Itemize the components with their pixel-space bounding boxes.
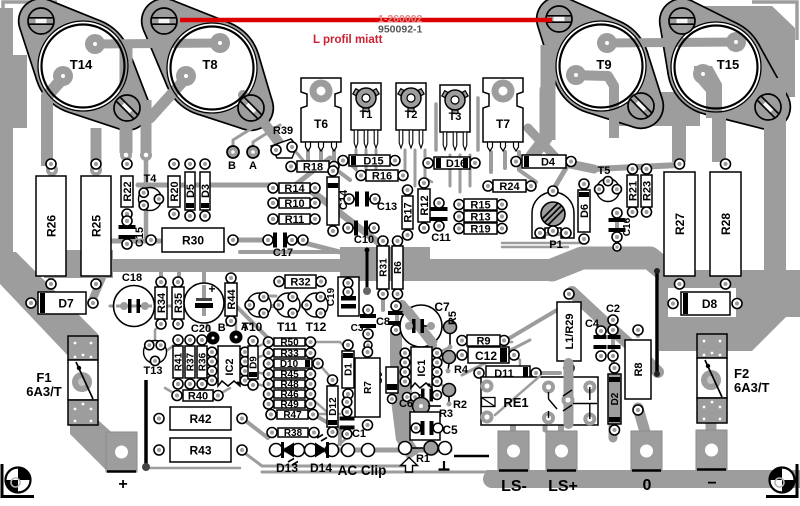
copper band bottom left round — [492, 470, 790, 488]
resistor R5 — [444, 311, 460, 350]
trace R9 to L1 — [505, 341, 512, 344]
svg-text:LS+: LS+ — [548, 478, 578, 495]
resistor R22 — [121, 159, 134, 219]
svg-text:C1: C1 — [352, 428, 366, 440]
capacitor C10 — [343, 221, 379, 247]
node R3 — [413, 398, 454, 421]
trace C2 col — [611, 330, 615, 364]
svg-text:F2: F2 — [734, 366, 749, 381]
trace C7 to R5 — [432, 326, 443, 327]
trace R8 to 0 terminal — [638, 408, 645, 432]
svg-text:IC1: IC1 — [416, 359, 428, 376]
led D14 — [305, 435, 339, 476]
transistor T9 outline — [546, 6, 659, 124]
svg-text:6A3/T: 6A3/T — [734, 380, 769, 395]
trace R47 to C1 — [313, 413, 340, 416]
diode D7 — [26, 292, 98, 314]
gray pads TO3 pins — [53, 32, 746, 86]
resistor R38 — [267, 428, 319, 440]
trace L1 diag low — [462, 340, 530, 375]
trace F1 to plus — [70, 420, 128, 470]
resistor R9 — [457, 335, 509, 347]
resistor R13 — [454, 211, 507, 223]
resistor R1 — [399, 441, 452, 465]
svg-text:R6: R6 — [393, 261, 404, 274]
svg-text:D8: D8 — [702, 297, 718, 311]
pads bottom row — [342, 444, 375, 457]
trace R43 out — [242, 451, 410, 466]
diode D11 — [474, 366, 541, 380]
svg-text:L1/R29: L1/R29 — [564, 313, 576, 349]
text AC Clip — [338, 463, 387, 478]
trace D4-P1 — [553, 163, 569, 190]
svg-text:R12: R12 — [419, 195, 431, 215]
capacitor C3 — [351, 305, 376, 349]
frame corner top-left — [3, 2, 57, 45]
trace F2 to minus — [706, 420, 717, 434]
resistor R43 — [154, 438, 247, 462]
copper band bottom — [486, 470, 800, 488]
svg-text:R14: R14 — [284, 183, 305, 195]
red wire line — [180, 18, 552, 23]
svg-text:LS-: LS- — [501, 478, 527, 495]
svg-text:R3: R3 — [439, 408, 453, 420]
capacitor C15 — [119, 216, 147, 249]
trace T4 row — [107, 160, 160, 241]
trace R47 out diag — [313, 414, 340, 444]
svg-text:D15: D15 — [363, 155, 383, 167]
red ghost board number — [378, 13, 423, 25]
trace T1 legs — [356, 150, 376, 178]
svg-text:C19: C19 — [326, 287, 337, 306]
resistor R14 — [268, 183, 320, 195]
svg-text:C2: C2 — [606, 303, 620, 315]
svg-text:B': B' — [218, 322, 229, 334]
transistor T5 — [595, 165, 622, 202]
trace mid T2/T3 — [436, 98, 478, 150]
frame corner top-right — [752, 2, 797, 40]
copper diag left-F1 — [0, 252, 98, 360]
svg-text:T2: T2 — [405, 109, 418, 121]
trace R40 links — [165, 388, 230, 395]
transistor T11 — [274, 292, 300, 334]
svg-text:T15: T15 — [717, 57, 739, 72]
svg-text:R24: R24 — [499, 181, 520, 193]
copper bar mid T14/T8 — [120, 45, 133, 153]
trace diag T8 to R39 — [243, 95, 286, 152]
svg-text:R47: R47 — [283, 410, 302, 421]
trace T2 legs — [405, 150, 425, 186]
svg-text:R5: R5 — [447, 311, 459, 325]
copper bar right edge — [764, 78, 786, 303]
diode D10 — [264, 359, 324, 371]
svg-text:C13: C13 — [377, 201, 397, 213]
resistor R6 — [392, 236, 404, 299]
gray pads misc — [46, 149, 152, 176]
trace T8 base down — [126, 78, 186, 118]
svg-text:R13: R13 — [470, 211, 490, 223]
svg-text:950092-1: 950092-1 — [378, 24, 423, 36]
svg-text:L profil miatt: L profil miatt — [313, 34, 383, 46]
trace band tail C17 — [240, 250, 345, 254]
copper pour between T9/T15 bottom — [612, 92, 700, 126]
svg-text:R49: R49 — [280, 400, 299, 411]
svg-text:R10: R10 — [284, 198, 304, 210]
transistor T6 — [301, 78, 341, 151]
symbol ground — [439, 461, 450, 470]
copper bar T9 left down — [541, 45, 556, 140]
trace wire end right — [150, 467, 240, 470]
svg-text:T7: T7 — [496, 117, 510, 131]
trace R25 stub — [93, 265, 99, 283]
diode D4 — [511, 155, 576, 168]
svg-text:D4: D4 — [541, 156, 556, 168]
svg-text:R28: R28 — [719, 213, 733, 235]
svg-text:D3: D3 — [200, 184, 212, 198]
diode D2 — [608, 363, 621, 435]
trace row y184 — [138, 158, 330, 185]
svg-text:D2: D2 — [610, 392, 621, 405]
trimmer P1 — [532, 186, 574, 251]
svg-text:+: + — [208, 282, 215, 296]
svg-text:C18: C18 — [122, 272, 142, 284]
svg-text:−: − — [707, 475, 716, 492]
resistor R26 — [36, 159, 66, 289]
trace diag T7 right — [528, 128, 594, 169]
copper band D7 top — [44, 250, 113, 278]
svg-text:T11: T11 — [277, 320, 297, 334]
svg-text:R50: R50 — [280, 338, 299, 349]
trace IC2 diag — [230, 300, 268, 338]
svg-text:R43: R43 — [189, 443, 211, 457]
trace IC2 to ladder — [245, 342, 268, 387]
copper flange T14 — [18, 0, 150, 131]
copper flange T9 — [536, 0, 664, 129]
svg-text:R37: R37 — [186, 352, 197, 371]
svg-text:R11: R11 — [285, 214, 305, 226]
resistor R48 — [264, 379, 316, 391]
svg-text:C20: C20 — [191, 323, 211, 335]
resistor R32 — [274, 275, 326, 288]
svg-text:C16: C16 — [622, 217, 633, 236]
trace D14 to C1 diag — [332, 438, 347, 450]
copper flange T15 — [659, 0, 791, 130]
svg-text:D9: D9 — [249, 356, 260, 369]
svg-text:R18: R18 — [303, 161, 323, 173]
svg-text:R30: R30 — [182, 233, 204, 247]
svg-text:C8: C8 — [376, 316, 390, 328]
svg-text:R15: R15 — [470, 199, 490, 211]
copper bar left inner — [13, 55, 27, 128]
resistor R34 — [155, 277, 168, 329]
svg-text:P1: P1 — [549, 239, 562, 251]
trace T7 legs — [491, 152, 536, 182]
svg-text:R31: R31 — [379, 258, 390, 277]
svg-text:C3: C3 — [351, 323, 364, 334]
text board number — [378, 24, 423, 36]
svg-text:D12: D12 — [328, 397, 339, 416]
capacitor C16 — [609, 208, 634, 251]
trace T6 to R39 — [296, 152, 308, 166]
trace C17 out — [293, 240, 340, 252]
diode D1 — [342, 340, 355, 399]
svg-text:C17: C17 — [273, 247, 293, 259]
trace bundle T9 down — [532, 90, 546, 156]
svg-text:B: B — [228, 160, 236, 172]
resistor R46 — [264, 389, 316, 401]
node B — [227, 146, 239, 172]
svg-text:R22: R22 — [122, 181, 134, 201]
svg-text:R35: R35 — [173, 293, 185, 313]
capacitor C7 — [400, 300, 450, 347]
trace T13 up — [155, 324, 178, 352]
svg-text:R20: R20 — [169, 181, 181, 201]
trace T15 base down — [694, 66, 722, 118]
svg-text:T6: T6 — [314, 117, 328, 131]
svg-text:R8: R8 — [633, 362, 645, 376]
svg-text:C12: C12 — [475, 349, 497, 363]
trace leg rows — [345, 160, 432, 182]
resistor R35 — [172, 277, 185, 329]
resistor R20 — [168, 159, 181, 219]
svg-text:R21: R21 — [627, 181, 639, 201]
transistor T4 — [139, 173, 164, 211]
resistor R28 — [710, 159, 741, 289]
svg-text:IC2: IC2 — [224, 358, 236, 375]
trace T10 row — [247, 304, 326, 308]
svg-text:R36: R36 — [198, 352, 209, 371]
resistor R37 — [185, 335, 197, 389]
capacitor C18 — [114, 272, 155, 327]
svg-text:T3: T3 — [449, 111, 462, 123]
trace C20 up — [202, 272, 206, 291]
trace R8 top — [636, 330, 640, 336]
trace T9-T15 emitter row — [607, 42, 736, 43]
capacitor C11 — [431, 198, 451, 244]
registration mark bottom-left — [2, 464, 34, 497]
svg-text:C6: C6 — [399, 398, 413, 410]
capacitor C17 — [263, 233, 308, 260]
resistor R12 — [418, 178, 431, 233]
capacitor C19 — [326, 277, 359, 316]
resistor R18 — [286, 161, 339, 173]
resistor R17 — [402, 185, 414, 240]
trace ladder right out — [310, 342, 348, 412]
trace T14-T8 emitter row — [95, 43, 220, 44]
svg-text:T12: T12 — [306, 320, 327, 334]
trace C16 col — [615, 213, 619, 244]
svg-text:T8: T8 — [202, 57, 217, 72]
svg-text:A: A — [249, 160, 257, 172]
wire mid vertical — [363, 248, 371, 296]
resistor R41 — [173, 335, 185, 389]
resistor R7 — [355, 347, 380, 430]
svg-text:R32: R32 — [290, 276, 310, 288]
ic IC2 — [207, 346, 250, 386]
trace D13 row — [276, 448, 450, 453]
svg-text:D5: D5 — [185, 184, 197, 198]
svg-text:R9: R9 — [476, 335, 490, 347]
svg-text:C4: C4 — [585, 318, 600, 330]
resistor R44 — [225, 273, 238, 326]
resistor R4 — [443, 351, 469, 377]
diode D9 — [248, 336, 260, 390]
relay RE1 — [481, 363, 599, 426]
led D13 — [270, 442, 305, 475]
resistor R30 — [146, 228, 238, 252]
capacitor C14 — [327, 166, 350, 236]
trace T14 base down — [47, 78, 63, 166]
transistor T13 — [144, 341, 167, 378]
capacitor C5 — [410, 412, 458, 440]
resistor R15 — [454, 199, 507, 211]
copper bar left edge — [0, 8, 13, 256]
trace R6 down — [395, 293, 399, 330]
resistor R11 — [268, 214, 320, 226]
svg-text:T9: T9 — [596, 57, 611, 72]
svg-text:T14: T14 — [70, 57, 93, 72]
svg-text:D6: D6 — [579, 204, 591, 218]
capacitor C20 — [184, 282, 224, 335]
gray pad T9 mount — [0, 0, 1, 1]
diode D3 — [200, 159, 212, 221]
trace mid diag band — [310, 190, 388, 250]
svg-text:+: + — [118, 476, 127, 493]
capacitor C9 — [374, 367, 398, 404]
red text L profil miatt — [313, 34, 383, 46]
wire right vertical — [654, 268, 660, 377]
transistor T14 outline — [28, 8, 145, 126]
svg-text:R34: R34 — [156, 292, 168, 313]
resistor R39 — [271, 125, 297, 158]
trace B' to C20 — [205, 320, 213, 338]
svg-text:T13: T13 — [144, 365, 163, 377]
wire black short — [454, 455, 489, 458]
capacitor C1 — [340, 397, 367, 440]
svg-text:R27: R27 — [673, 213, 687, 235]
diode D8 — [668, 292, 742, 315]
svg-text:R4: R4 — [454, 364, 469, 376]
trace R34 up — [161, 268, 179, 283]
diode D15 — [338, 155, 400, 167]
svg-text:R39: R39 — [273, 125, 293, 137]
svg-text:AC Clip: AC Clip — [338, 463, 387, 478]
resistor R50 — [264, 337, 316, 349]
trace T11 T12 row — [270, 296, 304, 306]
diode D16 — [423, 157, 480, 170]
diode D12 — [327, 375, 339, 437]
resistor R33 — [264, 348, 316, 360]
svg-text:T4: T4 — [144, 173, 158, 185]
trace A' up — [230, 310, 236, 336]
svg-text:R40: R40 — [188, 390, 208, 402]
trace L1 diag up — [503, 303, 569, 342]
svg-text:D10: D10 — [280, 359, 299, 370]
trace D2 col down — [609, 424, 618, 438]
capacitor C4 — [585, 318, 618, 361]
capacitor C6 — [399, 389, 442, 411]
svg-text:C15: C15 — [134, 227, 146, 247]
svg-text:R44: R44 — [226, 289, 238, 310]
ic IC1 — [400, 347, 442, 388]
svg-text:R19: R19 — [470, 223, 490, 235]
trace IC1 left bar — [390, 330, 420, 460]
svg-text:R26: R26 — [44, 215, 58, 237]
svg-text:D13: D13 — [276, 461, 298, 475]
svg-text:T5: T5 — [598, 165, 611, 177]
svg-text:R23: R23 — [641, 181, 653, 201]
svg-text:RE1: RE1 — [503, 395, 528, 410]
resistor R23 — [641, 164, 653, 217]
svg-text:R17: R17 — [402, 202, 414, 222]
resistor R47 — [266, 410, 318, 422]
trace C18 row — [110, 305, 200, 308]
resistor R27 — [664, 159, 695, 289]
capacitor C2 — [606, 303, 621, 349]
trace LSm stub — [510, 425, 516, 434]
trace R21 top row — [594, 165, 679, 169]
copper bar R27 top — [672, 112, 686, 162]
svg-text:D14: D14 — [310, 461, 332, 475]
trace P1 right thin — [502, 243, 585, 247]
svg-text:R38: R38 — [284, 428, 303, 439]
resistor R31 — [377, 236, 390, 299]
capacitor C8 — [376, 301, 404, 335]
copper mass bottom-right — [659, 270, 800, 351]
svg-text:C11: C11 — [431, 232, 451, 244]
resistor R21 — [627, 164, 639, 217]
transistor T10 — [242, 292, 271, 334]
wire T13 down — [142, 380, 150, 471]
terminal 0 — [631, 431, 662, 494]
transistor T12 — [302, 292, 328, 334]
svg-text:T1: T1 — [360, 109, 373, 121]
trace RE coil — [543, 408, 548, 430]
capacitor C13 — [344, 192, 397, 214]
terminal minus — [696, 430, 727, 492]
trace R30 out — [233, 238, 268, 243]
transistor T1 — [351, 83, 381, 148]
svg-text:R16: R16 — [372, 170, 392, 182]
resistor R8 — [625, 325, 651, 415]
copper bar R28 top — [712, 112, 726, 162]
trace P1 feet — [541, 232, 573, 236]
svg-text:D1: D1 — [344, 363, 355, 376]
copper notch D8 white — [668, 288, 736, 317]
transistor T15 outline — [669, 8, 786, 125]
copper band right step — [552, 258, 700, 287]
svg-text:R1: R1 — [416, 453, 430, 465]
svg-text:T10: T10 — [242, 320, 263, 334]
trace R42 right diag — [242, 418, 268, 438]
trace D7 diag up — [91, 266, 107, 303]
svg-text:6A3/T: 6A3/T — [26, 384, 61, 399]
resistor R42 — [154, 407, 247, 430]
trace R31 down — [381, 293, 385, 310]
trace D11 row — [535, 371, 560, 375]
copper bar R25 top — [91, 128, 102, 170]
transistor T2 — [396, 83, 426, 148]
svg-text:0: 0 — [643, 477, 652, 494]
copper flange T8 — [141, 0, 274, 131]
trace IC1 to R2R4 — [437, 347, 450, 390]
trace T9 base — [571, 75, 614, 138]
resistor R16 — [356, 170, 408, 182]
resistor R40 — [172, 390, 223, 402]
fuse F1 — [26, 336, 98, 425]
svg-text:C10: C10 — [354, 234, 374, 246]
transistor T7 — [483, 78, 523, 151]
